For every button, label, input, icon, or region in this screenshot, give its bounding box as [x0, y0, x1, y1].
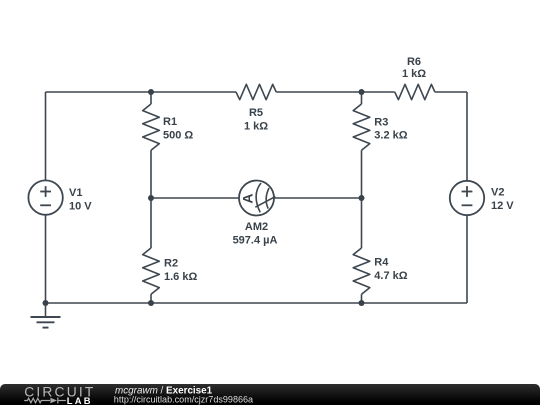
svg-text:12 V: 12 V	[491, 200, 514, 212]
svg-text:R3: R3	[374, 117, 388, 129]
svg-text:R5: R5	[249, 107, 263, 119]
svg-text:4.7 kΩ: 4.7 kΩ	[374, 270, 407, 282]
svg-text:1 kΩ: 1 kΩ	[402, 68, 426, 80]
svg-text:V1: V1	[69, 187, 82, 199]
svg-text:AM2: AM2	[245, 221, 268, 233]
svg-text:LAB: LAB	[67, 396, 93, 405]
svg-text:R6: R6	[407, 56, 421, 68]
svg-text:3.2 kΩ: 3.2 kΩ	[374, 130, 407, 142]
svg-text:10 V: 10 V	[69, 201, 92, 213]
svg-text:R1: R1	[163, 116, 177, 128]
svg-text:V2: V2	[491, 187, 504, 199]
svg-text:597.4 µA: 597.4 µA	[233, 235, 278, 247]
svg-text:R2: R2	[164, 258, 178, 270]
svg-text:A: A	[240, 193, 256, 203]
svg-text:1.6 kΩ: 1.6 kΩ	[164, 271, 197, 283]
svg-text:1 kΩ: 1 kΩ	[244, 120, 268, 132]
svg-text:500 Ω: 500 Ω	[163, 129, 193, 141]
svg-text:R4: R4	[374, 257, 389, 269]
svg-text:http://circuitlab.com/cjzr7ds9: http://circuitlab.com/cjzr7ds99866a	[114, 395, 254, 405]
